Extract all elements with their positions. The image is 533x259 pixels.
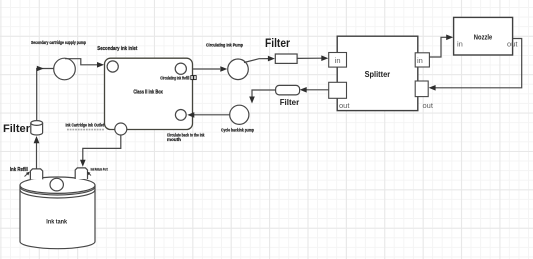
wire W11: splitter right-in up to nozzle — [429, 35, 453, 58]
svg-text:Ink Cartridge Ink Outlet: Ink Cartridge Ink Outlet — [66, 123, 105, 128]
filter F1 (top rectangle) — [275, 54, 297, 63]
svg-text:out: out — [339, 101, 350, 110]
wire W5: pump P2 to filter F1 — [244, 56, 275, 63]
svg-text:Ink Return Port: Ink Return Port — [91, 166, 108, 171]
filter F2 (lower rounded rectangle) — [276, 85, 300, 95]
nozzle box — [454, 17, 513, 55]
port circle: circulating ink refill (top-right) — [175, 63, 186, 74]
tank port: ink refill (left) — [30, 169, 42, 180]
splitter port: left out — [329, 82, 351, 110]
label: Ink Return Port + leader arrow — [87, 166, 108, 175]
pump P1: secondary cartridge supply pump — [54, 58, 76, 80]
wire W2: filter up, corner, right into pump P1 — [37, 66, 54, 121]
svg-text:Secondary cartridge supply pum: Secondary cartridge supply pump — [31, 40, 86, 45]
wire W1: tank ink-refill port up to filter — [34, 136, 40, 169]
svg-text:in: in — [417, 56, 423, 65]
svg-text:out: out — [507, 40, 518, 49]
pump P3: cycle backink pump — [230, 105, 249, 124]
splitter port: right out — [415, 81, 434, 110]
splitter port: left in — [329, 53, 347, 68]
wire W4: ink box right to circulating ink pump — [193, 66, 228, 72]
tank port: ink return (right) — [75, 168, 87, 179]
svg-text:Nozzle: Nozzle — [474, 35, 493, 42]
svg-text:Ink tank: Ink tank — [46, 218, 67, 225]
port circle: secondary ink inlet (top-left) — [107, 61, 118, 72]
wire W7: splitter left out to filter F2 — [300, 87, 329, 93]
ink box: Class II ink Box — [105, 58, 193, 129]
label: Circulate back to the ink mouth — [167, 133, 205, 142]
wire W10: ink outlet circle down, left, down into ink return port — [80, 135, 121, 167]
label: Circulating Ink Refill — [160, 76, 196, 81]
splitter port: right in — [415, 53, 429, 67]
label: Ink Refill + leader arrow — [10, 167, 30, 176]
svg-text:Filter: Filter — [3, 123, 31, 135]
filter F0 (cylinder above ink tank) — [31, 121, 43, 135]
wire W12: nozzle out, right, down, left into splitter right-out — [429, 39, 522, 91]
label: Ink Cartridge Ink Outlet — [66, 123, 105, 130]
port circle: ink cartridge ink outlet (on bottom edge) — [115, 123, 127, 135]
ink tank top small circle — [50, 178, 63, 191]
svg-text:Ink Refill: Ink Refill — [10, 167, 28, 173]
svg-text:Circulating Ink Refill: Circulating Ink Refill — [160, 76, 189, 81]
svg-text:Circulating Ink Pump: Circulating Ink Pump — [206, 42, 243, 47]
wire W6: filter F1 to splitter left in — [297, 55, 328, 61]
svg-text:Class II ink Box: Class II ink Box — [133, 90, 163, 96]
svg-text:in: in — [457, 40, 463, 49]
wire W8: filter F2 left, down into pump P3 — [249, 90, 275, 104]
wire W3: pump P1 top to ink box left edge — [65, 59, 104, 68]
splitter box — [337, 36, 418, 110]
port circle: circulate back (bottom-right) — [175, 110, 186, 121]
svg-text:mouth: mouth — [167, 137, 181, 142]
svg-text:Cycle backink pump: Cycle backink pump — [221, 127, 254, 132]
pump P2: circulating ink pump — [228, 59, 249, 80]
svg-text:Secondary ink inlet: Secondary ink inlet — [97, 46, 137, 52]
svg-text:in: in — [335, 56, 341, 65]
svg-text:out: out — [423, 101, 434, 110]
ink tank body — [20, 177, 95, 249]
wire W9: pump P3 left into box circulate-back circle — [187, 112, 229, 118]
svg-text:Filter: Filter — [265, 38, 290, 50]
svg-text:Filter: Filter — [280, 98, 300, 107]
svg-text:Splitter: Splitter — [365, 70, 391, 79]
